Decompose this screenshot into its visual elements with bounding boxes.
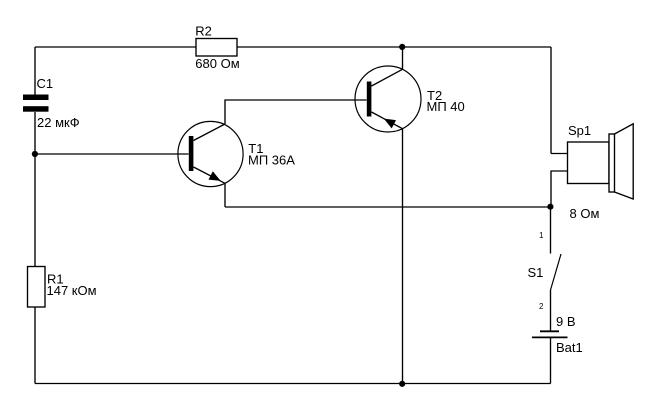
resistor R2 — [196, 39, 237, 57]
junction node speaker-switch — [547, 204, 553, 210]
svg-text:1: 1 — [539, 231, 544, 240]
wire top-right segment — [237, 46, 551, 48]
svg-text:R2: R2 — [195, 24, 212, 39]
svg-text:Sp1: Sp1 — [568, 123, 591, 138]
switch S1 — [551, 254, 562, 290]
wire right vertical to speaker — [550, 47, 552, 154]
resistor R1 — [28, 267, 46, 308]
svg-text:C1: C1 — [37, 76, 54, 91]
svg-text:2: 2 — [539, 302, 544, 311]
svg-text:680 Ом: 680 Ом — [195, 56, 239, 71]
battery Bat1 — [540, 330, 559, 332]
wire speaker upper stub — [551, 153, 568, 155]
svg-text:S1: S1 — [528, 265, 544, 280]
svg-text:Bat1: Bat1 — [556, 340, 583, 355]
wire left vertical lower — [34, 307, 36, 384]
wire emitter bus — [225, 206, 551, 208]
transistor T1 — [178, 121, 243, 186]
wire battery to bottom — [550, 337, 552, 383]
wire T2 collector up — [402, 47, 404, 69]
wire T2 emitter down — [402, 129, 404, 384]
svg-text:147 кОм: 147 кОм — [47, 283, 97, 298]
wire switch lower — [550, 290, 552, 331]
wire T1 emitter down — [224, 183, 226, 207]
svg-text:8 Ом: 8 Ом — [570, 206, 600, 221]
svg-text:22 мкФ: 22 мкФ — [37, 115, 80, 130]
capacitor C1 — [23, 95, 49, 101]
speaker Sp1 — [568, 142, 610, 184]
transistor T2 — [355, 66, 421, 132]
svg-text:МП 36А: МП 36А — [248, 152, 295, 167]
svg-text:МП 40: МП 40 — [427, 99, 465, 114]
wire T1 base — [35, 153, 189, 155]
wire left vertical middle — [34, 112, 36, 267]
wire speaker lower stub — [551, 171, 568, 207]
svg-text:9 В: 9 В — [556, 314, 576, 329]
wire switch upper — [550, 207, 552, 254]
junction node C1-R1-T1 base — [32, 151, 38, 157]
wire left vertical upper — [34, 47, 36, 95]
wire bottom — [35, 383, 551, 385]
wire top-left segment — [35, 46, 196, 48]
junction node top — [399, 44, 405, 50]
junction node bottom — [399, 381, 405, 387]
wire T1 collector to T2 base — [225, 100, 367, 124]
